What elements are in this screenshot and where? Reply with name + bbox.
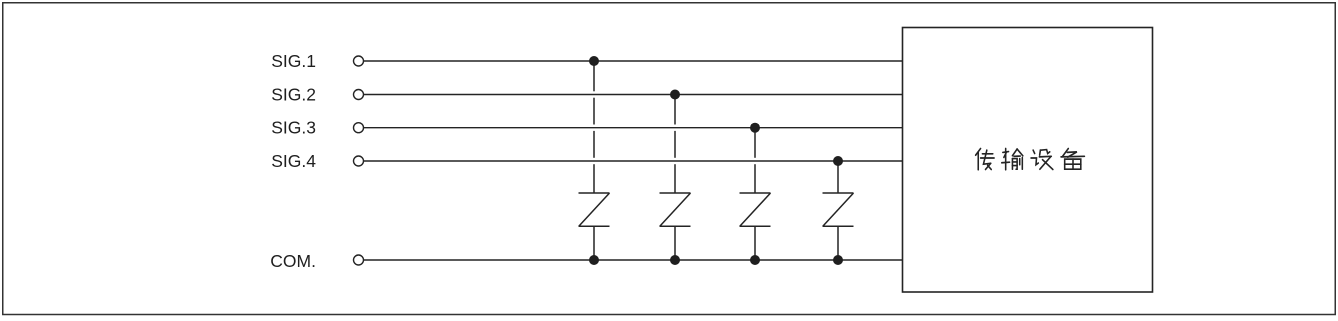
svg-text:SIG.4: SIG.4 [271, 151, 316, 171]
node COM/branch4 [833, 255, 843, 265]
label 设 (she) drawn glyph [1031, 150, 1053, 170]
arrester Z4 [823, 193, 854, 226]
label 输 (shu) drawn glyph [1002, 148, 1023, 169]
node COM/branch3 [750, 255, 760, 265]
wire SIG.3 [364, 127, 903, 129]
wire branch 2 vertical [674, 95, 676, 261]
node SIG.1/branch1 [589, 56, 599, 66]
terminal SIG.1 [354, 56, 364, 66]
node COM/branch2 [670, 255, 680, 265]
wire SIG.1 [364, 60, 903, 62]
arrester Z2 [660, 193, 691, 226]
arrester Z3 [740, 193, 771, 226]
node SIG.4/branch4 [833, 156, 843, 166]
node SIG.2/branch2 [670, 90, 680, 100]
terminal SIG.3 [354, 123, 364, 133]
wire branch 1 vertical [593, 61, 595, 260]
svg-text:SIG.3: SIG.3 [271, 118, 316, 138]
arrester Z1 [579, 193, 610, 226]
wire COM. [364, 259, 903, 261]
terminal COM. [354, 255, 364, 265]
wire SIG.4 [364, 160, 903, 162]
terminal SIG.4 [354, 156, 364, 166]
svg-text:SIG.2: SIG.2 [271, 85, 316, 105]
block U1 transmission equipment box [903, 28, 1153, 293]
wire branch 3 vertical [754, 128, 756, 260]
svg-text:SIG.1: SIG.1 [271, 51, 316, 71]
wire branch 4 vertical [837, 161, 839, 260]
label 备 (bei) drawn glyph [1061, 148, 1084, 169]
terminal SIG.2 [354, 90, 364, 100]
label 传 (chuan) drawn glyph [976, 148, 994, 169]
node SIG.3/branch3 [750, 123, 760, 133]
wire SIG.2 [364, 94, 903, 96]
node COM/branch1 [589, 255, 599, 265]
svg-text:COM.: COM. [270, 251, 316, 271]
